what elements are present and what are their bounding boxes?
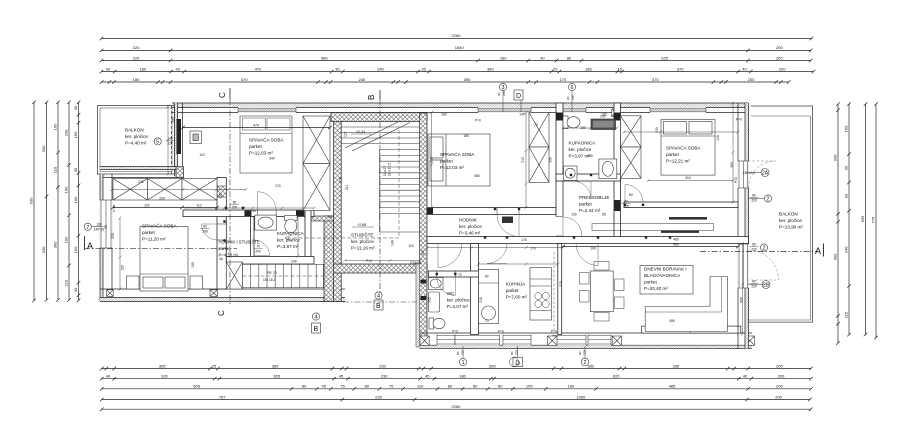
svg-text:300: 300 [41,145,46,152]
svg-text:7: 7 [86,225,89,231]
svg-text:300: 300 [171,117,175,123]
svg-text:767: 767 [219,394,226,399]
svg-text:B: B [367,95,376,100]
svg-text:35: 35 [421,66,426,71]
interior chain bedroom3 vertical [430,111,433,209]
window top wall bedroom1 [238,107,296,113]
svg-text:70: 70 [485,319,489,323]
rotated door dims above bottom markers [456,350,587,355]
dark jamb bedroom3 wall west end [427,208,433,214]
svg-text:P=3,07 m²: P=3,07 m² [447,304,469,309]
door opening bedroom1 [257,210,276,217]
svg-text:270: 270 [275,184,281,188]
shower wc [429,292,440,312]
svg-text:311: 311 [345,184,349,190]
toilet kupaonica-right [563,116,580,129]
exterior wall top [172,103,749,113]
svg-text:2A: 2A [762,171,769,177]
svg-text:340: 340 [269,157,275,161]
svg-text:820: 820 [613,374,620,379]
dimension column left-4 [67,101,71,302]
room label predsoblje [579,195,609,213]
wall between kupaonica-left and stair [324,216,334,302]
kitchen stove burners [535,293,550,308]
dimension column right-2 [847,102,851,336]
window top wall bedroom3 [478,107,531,113]
svg-text:KUPAONICA: KUPAONICA [569,141,597,146]
svg-text:25: 25 [553,66,558,71]
svg-text:330: 330 [41,246,46,253]
svg-text:525: 525 [661,55,668,60]
sofa living L-shape [645,277,727,332]
svg-text:360: 360 [53,241,58,248]
balcony door right wall living [738,244,749,288]
wardrobe bedroom4 [621,116,642,179]
svg-text:605: 605 [193,384,200,389]
column bottom wall dining [612,336,621,345]
svg-text:2B: 2B [763,283,770,289]
washbasin kupaonica-right [599,159,617,179]
rotated door dims below marker 3 [497,91,506,96]
svg-text:70: 70 [256,245,260,249]
sliding door living [642,326,741,333]
window bottom wall wc [437,334,455,345]
interior dim 220 bedroom2 [111,206,219,210]
dimension row bottom-3 [100,387,813,391]
svg-text:160: 160 [96,223,102,227]
svg-text:P=12,21 m²: P=12,21 m² [666,159,690,164]
svg-text:40: 40 [742,66,747,71]
svg-text:110: 110 [196,203,201,207]
svg-text:305: 305 [159,363,166,368]
svg-text:980: 980 [321,55,328,60]
svg-text:310: 310 [685,176,691,180]
svg-text:SPAVAĆA SOBA: SPAVAĆA SOBA [249,137,284,143]
grid marker 5 circled balkon [154,138,161,146]
svg-text:90: 90 [540,55,545,60]
svg-text:P=90: P=90 [112,204,116,212]
svg-text:470: 470 [241,77,248,82]
stair dim 115 [344,131,348,137]
grid marker 2 circled right [748,195,772,203]
interior chain balkon left vertical [167,105,170,176]
svg-text:240: 240 [502,91,506,96]
svg-text:170: 170 [559,77,566,82]
svg-text:ker. pločice: ker. pločice [351,239,374,244]
staircase lower flight centerline [243,275,324,277]
svg-text:390: 390 [487,66,494,71]
interior dim 455 living [561,245,740,249]
svg-text:ker. pločice: ker. pločice [125,134,148,139]
door dim right 2B 60/220 [750,280,759,289]
svg-text:80: 80 [302,384,307,389]
svg-text:42: 42 [106,66,111,71]
svg-text:310: 310 [521,157,525,163]
svg-text:220: 220 [751,247,757,251]
dimension column right-3 total 695 [864,102,868,336]
svg-text:230: 230 [111,233,115,239]
svg-text:80: 80 [365,384,370,389]
interior chain hodnik right horizontal [426,246,565,249]
wc door opening [437,271,456,277]
exterior wall bottom of left block [100,289,345,302]
grid marker 4 circled [375,292,382,300]
interior chain kupaonica-right horizontal [562,127,619,130]
room label wc [447,291,470,309]
kitchen counter [530,268,551,320]
room label spavaca soba bedroom4 [666,145,701,164]
svg-text:310: 310 [339,177,343,183]
svg-text:160: 160 [64,236,69,243]
window bottom wall dining-a [553,334,586,345]
svg-text:4: 4 [314,315,317,321]
svg-text:P=13,90 m²: P=13,90 m² [779,225,803,230]
svg-text:200: 200 [748,77,755,82]
interior chain bedroom2 top [111,188,248,191]
interior chain bedroom3 wardrobe vertical [525,111,528,209]
svg-text:46: 46 [219,257,223,261]
svg-text:695: 695 [860,215,865,222]
svg-text:140: 140 [716,135,720,141]
door arc wc [437,277,456,296]
svg-text:149: 149 [391,240,395,246]
svg-text:300: 300 [833,253,838,260]
svg-text:B: B [376,303,381,310]
bed bedroom4 [661,120,715,175]
svg-text:470: 470 [253,123,259,127]
svg-text:330: 330 [673,363,680,368]
svg-text:205: 205 [232,205,238,209]
svg-text:110: 110 [417,384,424,389]
svg-text:305: 305 [428,297,432,303]
svg-text:80: 80 [448,384,453,389]
svg-text:90: 90 [844,165,849,170]
room label spavaca soba bedroom1 [249,137,284,156]
svg-text:PR. 20: PR. 20 [267,271,277,275]
window top wall kupaonica-right [562,107,586,113]
interior chain bedroom4 vertical [732,102,735,204]
door dim bedroom4 80/205 [622,200,631,209]
washing machine kupaonica-right [564,166,578,181]
svg-text:110: 110 [53,166,58,173]
svg-text:175: 175 [521,238,527,242]
room label stubiste [351,232,375,251]
svg-text:90: 90 [497,92,501,96]
svg-text:150: 150 [73,246,78,253]
svg-text:225: 225 [583,350,587,355]
svg-text:240: 240 [571,95,575,100]
door dim balcony5 140/220 [166,137,175,146]
svg-text:105: 105 [526,384,533,389]
section line A-A left [84,248,237,250]
door opening bedroom4 [625,203,643,208]
svg-text:SPAVAĆA SOBA: SPAVAĆA SOBA [440,151,475,157]
door opening hodnik-kitchen [487,237,507,243]
label box dnevni boravak [640,266,693,295]
room label balkon top-left [125,128,148,146]
svg-text:160: 160 [441,113,447,117]
svg-text:KUPAONICA: KUPAONICA [277,231,305,236]
interior chain kitchen horizontal [477,263,560,266]
grid marker D boxed bottom [510,346,523,367]
room label balkon right [779,212,803,230]
interior chain bedroom4 horizontal [623,131,740,134]
window bottom wall kitchen-a [455,334,500,345]
svg-text:230: 230 [379,363,386,368]
grid marker 2 circled right lower [760,244,767,252]
svg-text:580: 580 [474,174,480,178]
column bottom wall mid [210,290,217,297]
svg-text:A: A [87,241,93,251]
svg-text:170: 170 [530,247,536,251]
svg-text:200: 200 [776,45,783,50]
column bottom-left corner [107,290,114,297]
door opening bedroom3 [497,208,519,215]
svg-text:P=11,16 m²: P=11,16 m² [351,246,375,251]
wall wc east [471,244,479,335]
door dim bedroom1 80/205 [230,201,239,210]
svg-text:365: 365 [272,363,279,368]
bathtub kupaonica-right [591,119,616,130]
dimension row top-2: 220 1840 200 [100,49,813,53]
svg-text:775: 775 [871,216,876,223]
wardrobe bar corridor upper [669,217,707,220]
wardrobe bedroom3 [529,113,549,183]
svg-text:40: 40 [73,167,78,172]
svg-text:80: 80 [752,194,756,198]
svg-text:465: 465 [673,238,679,242]
svg-text:80: 80 [498,384,503,389]
interior dim 340 bedroom1 [269,157,275,161]
door dim left 160/140 [94,223,105,232]
threshold P=0 dining [498,330,504,334]
dimension row bottom-4: 767 230 1060 200 [100,398,812,402]
svg-text:parket: parket [666,152,679,157]
svg-text:35: 35 [335,66,340,71]
staircase walk line dashed with arrow [285,130,399,241]
wc door width label 70 [458,273,462,277]
wc north wall [429,271,479,277]
svg-text:P=0: P=0 [551,330,557,334]
interior chain kupaonica-left vertical [297,215,300,258]
interior chain hodnik north [185,207,316,210]
grid marker 2 circled bottom [581,346,589,366]
svg-text:315: 315 [479,297,483,303]
exterior wall bottom right block [420,333,752,349]
svg-text:225: 225 [515,350,519,355]
svg-text:P=11,20 m²: P=11,20 m² [142,237,166,242]
interior chain living vertical [741,242,744,336]
svg-text:330: 330 [219,193,223,199]
door dim right 2A 180 [743,171,755,175]
wall kupaonica-right east [614,103,621,243]
svg-text:3: 3 [501,85,504,91]
svg-text:345: 345 [549,157,553,163]
wall band balcony bottom / left block top [100,167,176,178]
svg-text:100: 100 [421,250,425,256]
door arc predsoblje west [563,217,582,236]
section line A-A right [700,251,818,253]
svg-text:660: 660 [740,297,744,303]
svg-text:parket: parket [506,288,519,293]
wall kupaonica-right west [556,103,563,243]
svg-text:HODNIK: HODNIK [459,218,478,223]
door arc bedroom3 [497,215,519,237]
svg-text:390: 390 [464,77,471,82]
door jamb marks [223,174,671,275]
dimension row bottom-2 [100,377,813,381]
svg-text:BLAGOVAONICA: BLAGOVAONICA [644,273,681,278]
section marker B bottom boxed [374,300,383,310]
svg-text:1: 1 [461,360,464,366]
svg-text:DNEVNI BORAVAK I: DNEVNI BORAVAK I [644,267,687,272]
svg-text:80: 80 [233,201,237,205]
svg-text:ker. pločice: ker. pločice [779,218,802,223]
grid marker 4 circled second [312,313,319,321]
svg-text:ker. pločice: ker. pločice [277,238,300,243]
wardrobe bedroom2 [113,179,217,201]
dining chairs [580,262,625,322]
svg-text:200: 200 [64,129,69,136]
svg-text:40: 40 [73,105,78,110]
washbasin kupaonica-left [255,215,277,230]
dark column in west wall [177,119,182,154]
dimension row top-1 total 2260 [100,37,814,41]
svg-text:485: 485 [669,384,676,389]
svg-text:P=0: P=0 [452,330,458,334]
dimension column left-3 [56,101,60,302]
svg-text:160: 160 [73,131,78,138]
svg-text:40: 40 [106,374,111,379]
kitchen west counter dim 60 [485,275,489,324]
svg-text:220: 220 [133,55,140,60]
balcony top-left outline [98,106,175,175]
door dim right 2 80/220 [750,194,759,203]
svg-text:75: 75 [389,384,394,389]
svg-text:15: 15 [618,66,623,71]
svg-text:455: 455 [673,242,679,246]
svg-text:200: 200 [775,394,782,399]
kitchen counter divisions [530,279,551,311]
wall bedroom2 east [217,178,226,290]
dimension row bottom-5 total 2260 [100,407,813,411]
svg-text:parket: parket [440,159,453,164]
room label hodnik right [459,218,482,236]
svg-text:+2,88: +2,88 [357,223,366,227]
washbasin wc [429,278,444,290]
dimension row bottom-1 [100,367,813,371]
svg-text:110: 110 [408,244,413,248]
interior dim 310 bedroom4 [685,176,691,180]
svg-text:40: 40 [743,374,748,379]
section marker A left [85,236,94,251]
grid marker 2A circled right [748,169,769,177]
grid line B vertical [379,99,381,294]
wardrobe bar corridor lower [592,224,714,233]
svg-text:70: 70 [458,273,462,277]
svg-text:25: 25 [212,363,217,368]
bed bedroom1 [240,116,292,173]
svg-text:240: 240 [291,260,297,264]
door arc kitchen [487,244,507,264]
interior dim 455 sofa [669,319,675,323]
dimension column left-1 total 630 [32,101,36,303]
interior chain stair south [344,259,422,262]
rotated door dims below marker 6 [566,95,575,100]
bedroom3 south wall [427,208,556,215]
svg-text:240: 240 [844,246,849,253]
svg-text:180: 180 [140,66,147,71]
room label kupaonica-left [277,231,305,249]
svg-text:P=0: P=0 [734,177,738,183]
grid marker 1 circled bottom [459,346,466,366]
threshold label P=0 stair [366,259,372,263]
svg-text:P=0: P=0 [366,259,372,263]
threshold P=0 balcony4 top [734,118,742,184]
opening predsoblje west [556,217,564,237]
svg-text:±2,34: ±2,34 [356,130,365,134]
parapet note left window [112,204,116,212]
svg-text:200: 200 [255,249,261,253]
svg-text:200: 200 [776,384,783,389]
stair tread note PR 20 [263,271,277,282]
dimension row top-5 [100,80,791,84]
interior dim texts scattered [104,113,744,303]
grid marker 2B circled right [748,281,770,289]
svg-text:315: 315 [559,281,563,287]
section marker C top [218,88,230,99]
svg-text:70: 70 [534,123,538,127]
svg-text:D: D [516,93,521,100]
door dim right lower 80/220 [750,243,759,252]
grid line C vertical [229,99,231,305]
svg-text:185: 185 [585,66,592,71]
grid marker D boxed top [514,90,523,112]
opening bottom wall living [625,334,742,346]
room label spavaca soba bedroom3 [440,151,475,170]
column bottom wall wc corner [420,336,429,345]
door opening living north [648,237,670,243]
label otan [410,261,422,265]
svg-text:180: 180 [133,77,140,82]
door opening bedroom2 [218,224,227,240]
svg-text:229: 229 [751,284,757,288]
bed bedroom3 [428,134,490,186]
stair level label +2,88 [352,223,374,227]
svg-text:208: 208 [202,229,208,233]
stair block south wall [334,264,427,273]
svg-text:455: 455 [669,319,675,323]
svg-text:115: 115 [344,131,348,137]
svg-text:115: 115 [844,311,849,318]
shoe cabinet hodnik-right [502,217,513,224]
column detail balkon top-left [190,131,201,144]
door opening predsoblje-living [576,237,598,243]
svg-text:80: 80 [624,200,628,204]
svg-text:STAN 1: STAN 1 [410,261,422,265]
svg-text:90: 90 [252,209,256,213]
door arc balcony bedroom4 dashed [749,161,776,188]
stair dim 149 [391,240,395,246]
wall kitchen-dining [558,244,562,335]
svg-text:A: A [815,246,821,256]
section marker B top [367,90,380,100]
svg-text:320: 320 [161,374,168,379]
svg-text:230: 230 [375,394,382,399]
bedroom4 south wall [624,202,738,208]
svg-text:2: 2 [583,360,586,366]
svg-text:6: 6 [570,85,573,91]
